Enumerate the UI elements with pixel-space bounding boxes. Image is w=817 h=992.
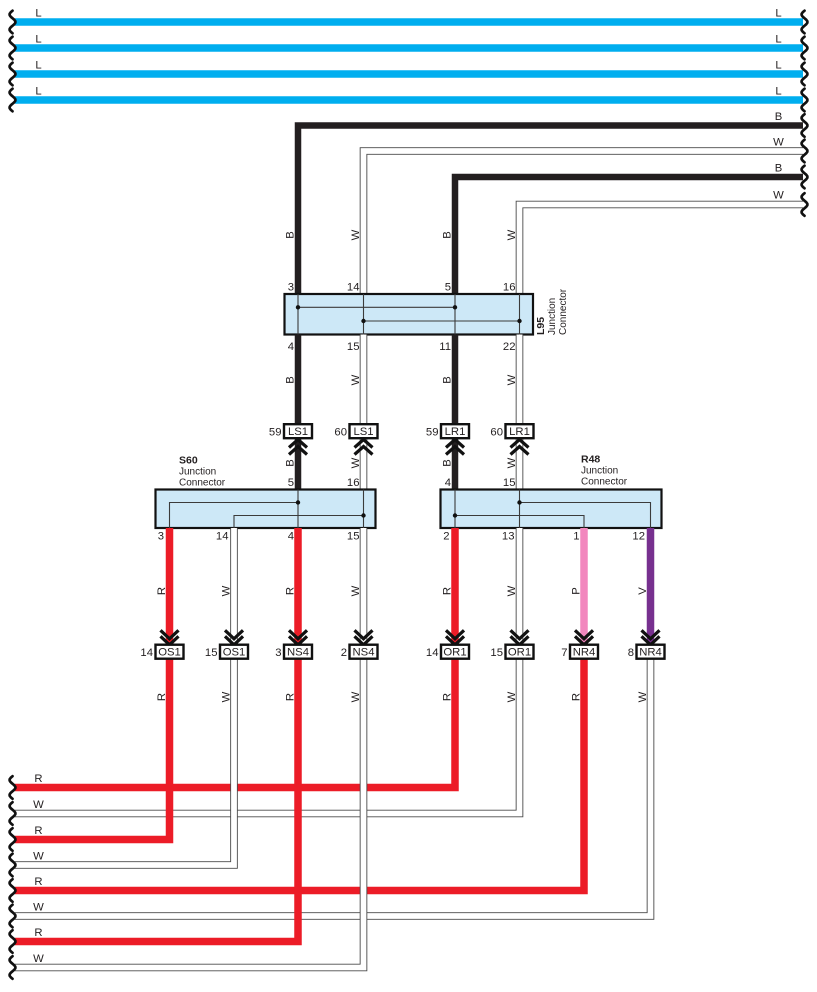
wire W from NS4 pin 2 to left harness	[15, 659, 364, 968]
svg-text:3: 3	[288, 282, 294, 294]
break symbol right of wire W (pin 16)	[802, 193, 808, 216]
svg-text:3: 3	[158, 531, 164, 543]
break symbol right of wire L3	[802, 63, 808, 86]
break symbol left of wire from NS4 pin 2	[10, 956, 16, 979]
svg-text:R: R	[441, 693, 453, 701]
svg-text:R: R	[34, 773, 42, 785]
svg-text:NR4: NR4	[573, 647, 596, 659]
wire L2 (blue)	[15, 44, 803, 52]
junction dot L95 pin 3	[296, 305, 300, 309]
break symbol left of wire L4	[10, 89, 16, 112]
wire R from OR1 pin 14 to left harness	[15, 659, 455, 788]
L95 internal pin lines	[297, 294, 299, 335]
svg-text:12: 12	[632, 531, 645, 543]
R48 internal lines	[454, 490, 456, 529]
wire B below connector LR1 pin 59	[452, 438, 459, 492]
wire B below connector LS1 pin 59	[295, 438, 302, 492]
svg-text:L: L	[775, 86, 781, 98]
svg-text:LR1: LR1	[509, 426, 530, 438]
svg-text:B: B	[441, 376, 453, 384]
svg-text:14: 14	[347, 282, 360, 294]
break symbol right of wire B (pin 3)	[802, 114, 808, 137]
svg-text:W: W	[350, 374, 362, 385]
wire R from NS4 pin 3 to left harness	[15, 659, 298, 942]
svg-text:R: R	[156, 693, 168, 701]
wire R S60 pin 4 to NS4 pin 3	[294, 528, 302, 645]
wire L4 (blue)	[15, 96, 803, 104]
svg-text:Connector: Connector	[558, 288, 569, 335]
svg-text:5: 5	[288, 477, 294, 489]
svg-text:LS1: LS1	[353, 426, 373, 438]
mating chevrons above NS4 pin 3	[289, 630, 307, 639]
mating chevrons above NR4 pin 8	[642, 630, 660, 639]
svg-text:Junction: Junction	[547, 298, 558, 335]
svg-text:B: B	[284, 231, 296, 239]
wire R from OS1 pin 14 to left harness	[15, 659, 170, 840]
svg-text:NS4: NS4	[353, 647, 375, 659]
svg-text:11: 11	[439, 341, 451, 353]
svg-text:16: 16	[503, 282, 516, 294]
connector NR4 pin 8 box	[637, 645, 665, 659]
mating chevrons below LR1	[511, 440, 529, 448]
svg-text:W: W	[506, 457, 518, 468]
svg-text:L: L	[775, 60, 781, 72]
connector NS4 pin 2 box	[350, 645, 378, 659]
svg-text:60: 60	[490, 427, 503, 439]
mating chevrons above OR1 pin 15	[511, 630, 529, 639]
junction dot S60 pin 16	[361, 513, 365, 517]
mating chevrons above OR1 pin 14	[446, 630, 464, 639]
wire W L95 pin 15 to LS1 pin 60	[360, 335, 368, 427]
svg-text:59: 59	[269, 427, 282, 439]
svg-text:L: L	[35, 8, 41, 20]
svg-text:W: W	[350, 229, 362, 240]
break symbol right of wire L4	[802, 89, 808, 112]
svg-text:OS1: OS1	[223, 647, 246, 659]
connector NR4 pin 7 box	[570, 645, 598, 659]
connector OR1 pin 14 box	[441, 645, 469, 659]
svg-text:R: R	[284, 587, 296, 595]
svg-text:W: W	[33, 799, 44, 811]
svg-text:R: R	[284, 693, 296, 701]
svg-text:14: 14	[426, 647, 439, 659]
wire W R48 pin 13 to OR1 pin 15	[516, 528, 524, 645]
svg-text:LR1: LR1	[445, 426, 466, 438]
svg-text:2: 2	[341, 647, 347, 659]
svg-text:59: 59	[426, 427, 439, 439]
connector LS1 pin 60 box	[350, 424, 378, 438]
break symbol left of wire from NR4 pin 7	[10, 879, 16, 902]
wire W from OR1 pin 15 to left harness	[15, 659, 520, 814]
junction connector R48 body	[441, 490, 662, 529]
svg-text:15: 15	[503, 477, 516, 489]
wire R from NR4 pin 7 to left harness	[15, 659, 584, 891]
wire W below connector LS1 pin 60	[360, 438, 368, 492]
svg-text:OR1: OR1	[508, 647, 531, 659]
mating chevrons above NS4 pin 2	[355, 630, 373, 639]
mating chevrons above OS1 pin 14	[161, 630, 179, 639]
wire P R48 pin 1 to NR4 pin 7	[580, 528, 588, 645]
wire W to L95 pin 16	[520, 205, 804, 297]
svg-text:W: W	[773, 190, 784, 202]
svg-text:60: 60	[334, 427, 347, 439]
svg-text:B: B	[284, 459, 296, 467]
wire W from OS1 pin 15 to left harness	[15, 659, 234, 865]
svg-text:W: W	[350, 457, 362, 468]
svg-text:P: P	[570, 587, 582, 595]
break symbol left of wire L1	[10, 11, 16, 34]
svg-text:W: W	[33, 902, 44, 914]
break symbol left of wire from OS1 pin 15	[10, 854, 16, 877]
svg-text:1: 1	[573, 531, 579, 543]
svg-text:L: L	[35, 86, 41, 98]
svg-text:B: B	[775, 111, 783, 123]
svg-text:W: W	[220, 691, 232, 702]
svg-text:13: 13	[502, 531, 515, 543]
mating chevrons below LS1	[289, 440, 307, 448]
junction connector L95 body	[285, 294, 534, 335]
wire L3 (blue)	[15, 70, 803, 78]
break symbol left of wire from NS4 pin 3	[10, 930, 16, 953]
svg-text:W: W	[637, 691, 649, 702]
break symbol left of wire L2	[10, 37, 16, 60]
junction dot L95 pin 14	[361, 319, 365, 323]
svg-text:4: 4	[288, 341, 294, 353]
connector OS1 pin 15 box	[220, 645, 248, 659]
svg-text:16: 16	[347, 477, 360, 489]
wire R S60 pin 3 to OS1 pin 14	[166, 528, 174, 645]
break symbol right of wire L2	[802, 37, 808, 60]
connector OR1 pin 15 box	[506, 645, 534, 659]
wire R R48 pin 2 to OR1 pin 14	[451, 528, 459, 645]
wire W S60 pin 14 to OS1 pin 15	[230, 528, 238, 645]
wire V R48 pin 12 to NR4 pin 8	[647, 528, 655, 645]
svg-text:W: W	[506, 691, 518, 702]
wire W L95 pin 22 to LR1 pin 60	[516, 335, 524, 427]
mating chevrons above NR4 pin 7	[575, 630, 593, 639]
connector LR1 pin 59 box	[441, 424, 469, 438]
svg-text:L: L	[35, 60, 41, 72]
break symbol left of wire L3	[10, 63, 16, 86]
svg-text:14: 14	[216, 531, 229, 543]
svg-text:L: L	[35, 34, 41, 46]
svg-text:R: R	[34, 876, 42, 888]
break symbol left of wire from OR1 pin 15	[10, 802, 16, 825]
svg-text:W: W	[220, 585, 232, 596]
mating chevrons below LR1	[446, 440, 464, 448]
svg-text:15: 15	[347, 531, 360, 543]
connector LS1 pin 59 box	[284, 424, 312, 438]
junction dot L95 pin 5	[453, 305, 457, 309]
svg-text:R48: R48	[581, 454, 600, 466]
svg-text:W: W	[506, 374, 518, 385]
break symbol right of wire W (pin 14)	[802, 140, 808, 163]
break symbol left of wire from OR1 pin 14	[10, 776, 16, 799]
wire B to L95 pin 3	[298, 126, 803, 297]
svg-text:15: 15	[490, 647, 503, 659]
svg-text:B: B	[284, 376, 296, 384]
wire B L95 pin 11 to LR1 pin 59	[452, 335, 459, 427]
svg-text:B: B	[441, 231, 453, 239]
svg-text:W: W	[350, 585, 362, 596]
wire B L95 pin 4 to LS1 pin 59	[295, 335, 302, 427]
svg-text:B: B	[775, 163, 783, 175]
svg-text:L: L	[775, 34, 781, 46]
break symbol left of wire from OS1 pin 14	[10, 828, 16, 851]
svg-text:4: 4	[445, 477, 451, 489]
svg-text:R: R	[441, 587, 453, 595]
svg-text:Junction: Junction	[179, 467, 216, 478]
svg-text:W: W	[506, 229, 518, 240]
svg-text:W: W	[33, 953, 44, 965]
svg-text:W: W	[506, 585, 518, 596]
svg-text:NR4: NR4	[639, 647, 662, 659]
junction dot R48 pin 15	[517, 500, 521, 504]
mating chevrons below LS1	[355, 440, 373, 448]
svg-text:22: 22	[503, 341, 516, 353]
svg-text:15: 15	[205, 647, 218, 659]
wire W to L95 pin 14	[364, 151, 804, 296]
mating chevrons above OS1 pin 15	[225, 630, 243, 639]
svg-text:LS1: LS1	[288, 426, 308, 438]
svg-text:L95: L95	[535, 317, 547, 335]
L95 internal bus pin14-pin16	[364, 320, 520, 322]
break symbol right of wire B (pin 5)	[802, 166, 808, 189]
wire W S60 pin 15 to NS4 pin 2	[360, 528, 368, 645]
junction dot L95 pin 16	[517, 319, 521, 323]
svg-text:R: R	[34, 825, 42, 837]
svg-text:V: V	[637, 587, 649, 595]
svg-text:R: R	[34, 927, 42, 939]
break symbol left of wire from NR4 pin 8	[10, 905, 16, 928]
svg-text:W: W	[33, 851, 44, 863]
svg-text:L: L	[775, 8, 781, 20]
svg-text:Connector: Connector	[179, 478, 226, 489]
wire B to L95 pin 5	[455, 177, 803, 296]
svg-text:5: 5	[445, 282, 451, 294]
svg-text:NS4: NS4	[287, 647, 309, 659]
svg-text:R: R	[156, 587, 168, 595]
svg-text:S60: S60	[179, 455, 198, 467]
svg-text:15: 15	[347, 341, 360, 353]
wire L1 (blue)	[15, 18, 803, 26]
connector LR1 pin 60 box	[506, 424, 534, 438]
svg-text:Connector: Connector	[581, 477, 628, 488]
junction connector S60 body	[156, 490, 376, 529]
svg-text:Junction: Junction	[581, 466, 618, 477]
svg-text:3: 3	[275, 647, 281, 659]
svg-text:OS1: OS1	[158, 647, 181, 659]
svg-text:14: 14	[140, 647, 153, 659]
connector OS1 pin 14 box	[156, 645, 184, 659]
S60 internal lines	[297, 490, 299, 529]
junction dot S60 pin 5	[296, 500, 300, 504]
svg-text:7: 7	[561, 647, 567, 659]
connector NS4 pin 3 box	[284, 645, 312, 659]
svg-text:W: W	[773, 137, 784, 149]
svg-text:8: 8	[628, 647, 634, 659]
break symbol right of wire L1	[802, 11, 808, 34]
svg-text:B: B	[441, 459, 453, 467]
svg-text:R: R	[570, 693, 582, 701]
svg-text:2: 2	[443, 531, 449, 543]
svg-text:W: W	[350, 691, 362, 702]
svg-text:4: 4	[288, 531, 294, 543]
wire W below connector LR1 pin 60	[516, 438, 524, 492]
L95 internal bus pin3-pin5	[298, 306, 455, 308]
wire W from NR4 pin 8 to left harness	[15, 659, 651, 916]
svg-text:OR1: OR1	[443, 647, 466, 659]
junction dot R48 pin 4	[453, 513, 457, 517]
